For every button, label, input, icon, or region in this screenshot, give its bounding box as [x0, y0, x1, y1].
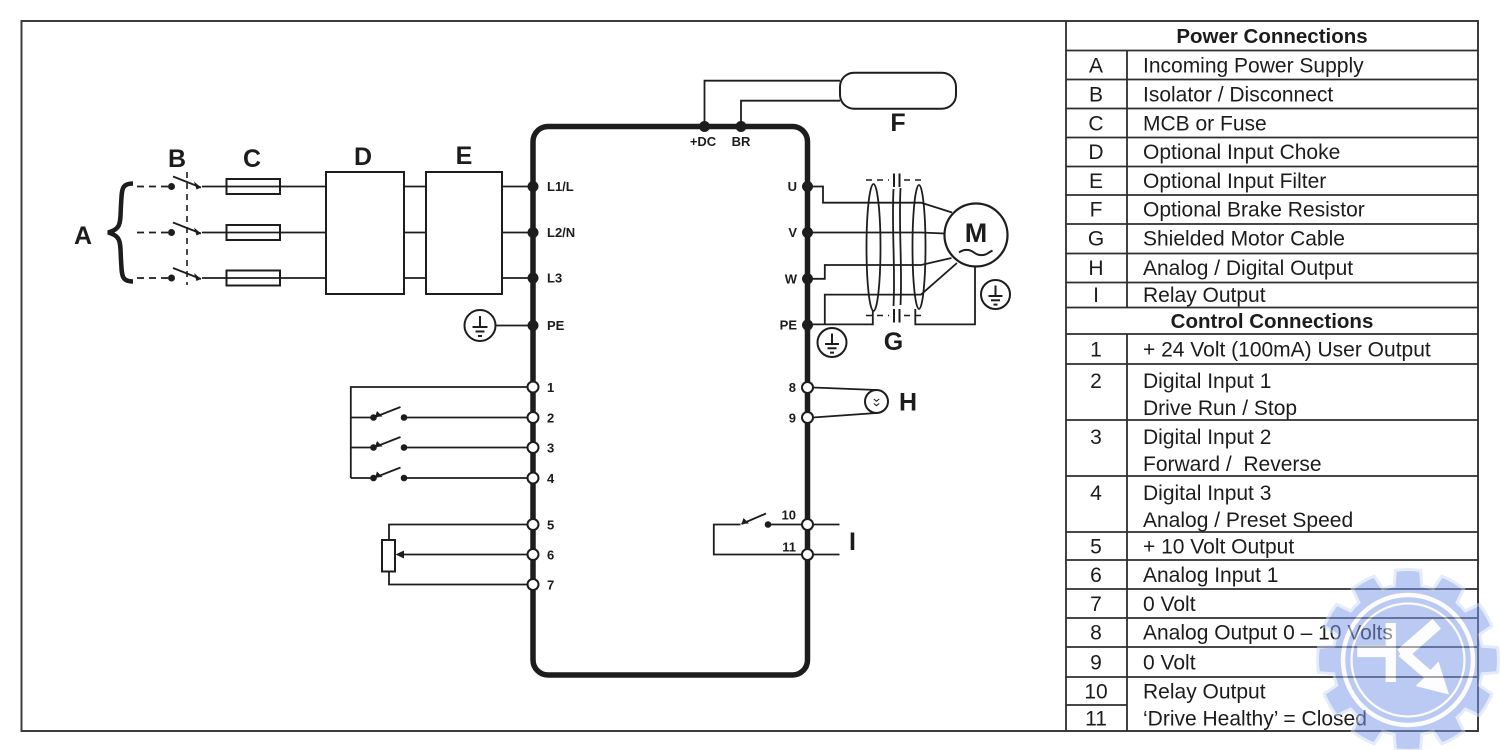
- wire supply phase 3 dashed: [137, 277, 168, 279]
- svg-text:Incoming Power Supply: Incoming Power Supply: [1143, 55, 1364, 78]
- svg-text:Optional Input Choke: Optional Input Choke: [1143, 141, 1340, 164]
- svg-text:I: I: [849, 528, 856, 556]
- table text: power connections: [1088, 25, 1368, 307]
- svg-text:Relay Output: Relay Output: [1143, 681, 1266, 704]
- wire pole1 to fuse: [202, 186, 227, 188]
- terminal W: [802, 273, 813, 284]
- svg-text:8: 8: [1090, 622, 1102, 645]
- wire ground to PE left: [496, 325, 530, 327]
- terminal PE right: [802, 320, 813, 331]
- svg-text:+ 24 Volt (100mA) User Output: + 24 Volt (100mA) User Output: [1143, 339, 1431, 362]
- svg-text:6: 6: [547, 548, 554, 563]
- svg-text:D: D: [354, 143, 372, 171]
- terminal labels right: [780, 179, 798, 333]
- wire pole3 to fuse: [202, 277, 227, 279]
- wire BR to brake resistor: [741, 101, 840, 124]
- svg-text:Optional Input Filter: Optional Input Filter: [1143, 170, 1326, 193]
- svg-text:7: 7: [547, 578, 554, 593]
- ground symbol left PE: [465, 310, 496, 341]
- svg-text:PE: PE: [547, 318, 565, 333]
- svg-text:Shielded Motor Cable: Shielded Motor Cable: [1143, 228, 1345, 251]
- svg-text:L1/L: L1/L: [547, 179, 574, 194]
- wire fuse1 to D: [280, 186, 326, 188]
- terminal L2/N: [528, 227, 539, 238]
- svg-text:11: 11: [1085, 708, 1107, 731]
- wire pole2 to fuse: [202, 232, 227, 234]
- svg-text:10: 10: [782, 508, 796, 523]
- DIAGRAM2: [351, 73, 1010, 593]
- svg-text:2: 2: [1090, 370, 1102, 393]
- svg-text:3: 3: [1090, 426, 1102, 449]
- svg-text:9: 9: [1090, 652, 1102, 675]
- svg-text:0 Volt: 0 Volt: [1143, 593, 1196, 616]
- wire E to L2/N: [502, 232, 529, 234]
- isolator B pole 3: [169, 268, 201, 281]
- motor M: [945, 204, 1008, 267]
- svg-text:G: G: [1088, 228, 1104, 251]
- wire shield to motor frame: [915, 267, 975, 325]
- svg-text:4: 4: [547, 471, 555, 486]
- ground symbol motor: [981, 280, 1010, 309]
- svg-text:3: 3: [547, 441, 554, 456]
- svg-text:Analog / Preset Speed: Analog / Preset Speed: [1143, 509, 1353, 532]
- wire +DC to brake resistor: [705, 81, 841, 124]
- wire fuse3 to D: [280, 277, 326, 279]
- wire U conductor: [811, 187, 952, 213]
- svg-text:C: C: [1088, 113, 1103, 136]
- svg-text:Optional Brake Resistor: Optional Brake Resistor: [1143, 199, 1365, 222]
- cable shield ellipse right: [913, 185, 926, 309]
- switch digital input 1: [351, 407, 527, 420]
- svg-text:C: C: [243, 145, 261, 173]
- svg-text:F: F: [890, 109, 905, 137]
- svg-text:V: V: [788, 225, 797, 240]
- table text: control connections: [1084, 310, 1431, 731]
- control terminal numbers 1-7: [547, 380, 555, 593]
- control terminals 8 9: [802, 382, 813, 423]
- svg-text:G: G: [884, 328, 903, 356]
- svg-text:A: A: [74, 222, 92, 250]
- brake resistor F: [840, 73, 956, 109]
- svg-text:I: I: [1093, 284, 1099, 307]
- isolator mechanical link dashed: [186, 172, 188, 285]
- svg-text:F: F: [1090, 199, 1103, 222]
- svg-text:D: D: [1088, 141, 1103, 164]
- svg-text:E: E: [1089, 170, 1103, 193]
- cable top capacitor dashed: [866, 174, 926, 188]
- wire terminal 1 bus: [351, 387, 527, 478]
- wire E to L3: [502, 277, 529, 279]
- svg-text:L2/N: L2/N: [547, 225, 575, 240]
- terminal BR: [736, 121, 747, 132]
- wire terminal 6 pot wiper: [396, 551, 528, 559]
- svg-text:6: 6: [1090, 564, 1102, 587]
- svg-text:4: 4: [1090, 482, 1102, 505]
- svg-text:5: 5: [1090, 536, 1102, 559]
- terminal V: [802, 227, 813, 238]
- svg-text:10: 10: [1084, 681, 1107, 704]
- svg-text:Analog / Digital Output: Analog / Digital Output: [1143, 257, 1353, 280]
- wire V conductor: [811, 233, 945, 234]
- svg-text:Control Connections: Control Connections: [1171, 310, 1374, 333]
- svg-text:BR: BR: [732, 134, 751, 149]
- svg-text:Drive Run / Stop: Drive Run / Stop: [1143, 397, 1297, 420]
- svg-text:11: 11: [782, 540, 796, 555]
- wire D to E phase2: [404, 232, 426, 234]
- wire terminal 7 to pot bottom: [389, 572, 527, 585]
- wire PE right to shield: [811, 311, 873, 324]
- terminal labels +DC BR: [690, 134, 751, 149]
- brace incoming supply A: [108, 184, 133, 282]
- cable screen lines: [893, 189, 894, 306]
- fuse C1: [227, 179, 281, 194]
- svg-text:+ 10 Volt Output: + 10 Volt Output: [1143, 536, 1294, 559]
- svg-text:Forward / Reverse: Forward / Reverse: [1143, 453, 1322, 476]
- fuse C2: [227, 225, 281, 240]
- potentiometer: [382, 540, 395, 572]
- svg-text:H: H: [1088, 257, 1103, 280]
- wire earth conductor: [825, 263, 957, 324]
- input filter E box: [426, 172, 502, 294]
- svg-text:B: B: [168, 145, 186, 173]
- svg-text:E: E: [456, 142, 473, 170]
- wire supply phase 1 dashed: [137, 186, 168, 188]
- analog output H symbol: [813, 388, 888, 418]
- svg-text:2: 2: [547, 411, 554, 426]
- svg-text:1: 1: [547, 380, 554, 395]
- svg-text:Digital Input 3: Digital Input 3: [1143, 482, 1271, 505]
- terminal numbers 8 9: [789, 380, 796, 426]
- svg-text:+DC: +DC: [690, 134, 717, 149]
- control terminals 1-7: [528, 382, 539, 591]
- ground symbol below PE right: [818, 328, 847, 357]
- wire supply phase 2 dashed: [137, 232, 168, 234]
- svg-text:Digital Input 1: Digital Input 1: [1143, 370, 1271, 393]
- relay switch blade: [742, 514, 803, 527]
- cable shield ellipse left: [867, 184, 881, 311]
- svg-text:M: M: [965, 218, 988, 248]
- terminal L1/L: [528, 181, 539, 192]
- svg-text:0 Volt: 0 Volt: [1143, 652, 1196, 675]
- input choke D box: [326, 172, 404, 294]
- svg-text:Analog Input 1: Analog Input 1: [1143, 564, 1278, 587]
- svg-text:7: 7: [1090, 593, 1102, 616]
- svg-text:Power Connections: Power Connections: [1176, 25, 1367, 48]
- switch digital input 3: [351, 468, 527, 481]
- wire terminal 5 to pot top: [389, 525, 527, 541]
- cable bottom capacitor dashed: [866, 309, 926, 323]
- svg-text:U: U: [788, 179, 797, 194]
- relay contact loop: [714, 525, 802, 555]
- svg-text:H: H: [899, 389, 917, 417]
- terminal U: [802, 181, 813, 192]
- wire D to E phase3: [404, 277, 426, 279]
- fuse C3: [227, 271, 281, 286]
- isolator B pole 2: [169, 223, 201, 236]
- terminal L3: [528, 273, 539, 284]
- relay stub 10: [813, 524, 840, 526]
- isolator B pole 1: [169, 177, 201, 190]
- svg-text:9: 9: [789, 411, 796, 426]
- wire fuse2 to D: [280, 232, 326, 234]
- terminal PE left: [528, 320, 539, 331]
- switch digital input 2: [351, 437, 527, 450]
- svg-text:Relay Output: Relay Output: [1143, 284, 1266, 307]
- svg-text:L3: L3: [547, 271, 562, 286]
- connections table grid: [1066, 21, 1478, 731]
- wire W conductor: [811, 258, 952, 279]
- svg-text:1: 1: [1090, 339, 1102, 362]
- svg-text:5: 5: [547, 518, 554, 533]
- drive unit main box: [533, 127, 808, 676]
- svg-text:Digital Input 2: Digital Input 2: [1143, 426, 1271, 449]
- svg-text:W: W: [785, 271, 798, 286]
- svg-text:8: 8: [789, 380, 796, 395]
- svg-text:PE: PE: [780, 318, 798, 333]
- control terminals 10 11: [802, 519, 813, 560]
- relay stub 11: [813, 554, 840, 556]
- wire E to L1/L: [502, 186, 529, 188]
- terminal +DC: [699, 121, 710, 132]
- svg-text:Isolator / Disconnect: Isolator / Disconnect: [1143, 84, 1333, 107]
- svg-text:MCB or Fuse: MCB or Fuse: [1143, 113, 1267, 136]
- terminal numbers 10 11: [782, 508, 796, 555]
- svg-text:B: B: [1089, 84, 1103, 107]
- wire D to E phase1: [404, 186, 426, 188]
- terminal labels left: [547, 179, 575, 333]
- WATERMARK logo: [1318, 570, 1499, 750]
- svg-text:A: A: [1089, 55, 1103, 78]
